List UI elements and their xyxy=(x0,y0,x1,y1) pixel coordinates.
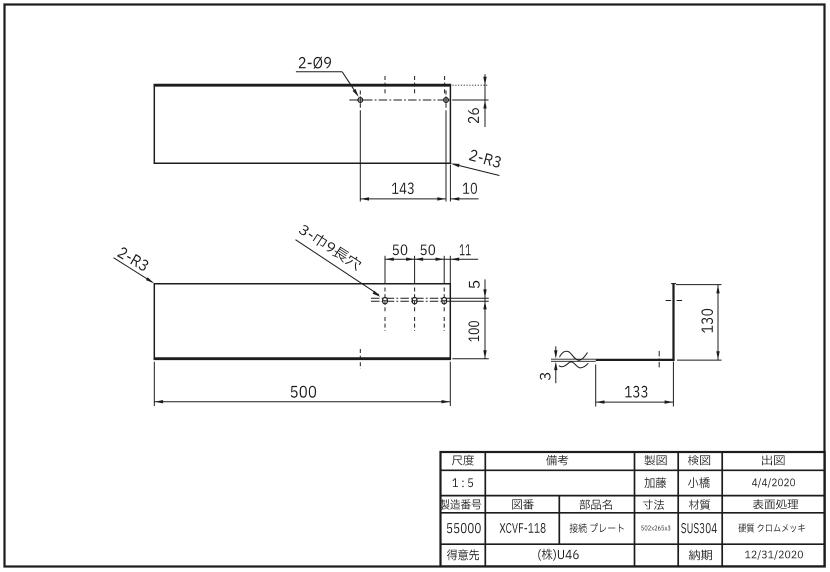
slot 5-dim ext line lower (dash-dot through slots, y=301.2) xyxy=(371,300,489,302)
top view bend edge (thick top line) xyxy=(154,84,452,87)
title cell value: hard chrome plating xyxy=(739,524,805,533)
title cell value: drawing number XCVF-118 xyxy=(500,523,546,533)
title cell header: customer xyxy=(447,549,479,560)
title block horizontal rule row2/row3 xyxy=(441,495,825,497)
title cell value: serial 55000 xyxy=(447,523,481,533)
dimension 26 extension line from hole centerline xyxy=(455,99,489,101)
dimension text 50 (first) xyxy=(393,244,408,255)
title cell header: delivery date xyxy=(689,550,712,561)
hole H1 vertical centerline / extension line xyxy=(359,91,361,202)
title cell header: drawing number xyxy=(512,499,533,510)
dimension 11 outside arrow and overrun xyxy=(450,258,478,261)
middle view bend edge (thick bottom line) xyxy=(154,357,451,360)
title cell value: scale 1:5 xyxy=(453,478,473,487)
title cell value: checked by Kobashi xyxy=(688,477,710,488)
title block vertical rule col 3 (full) xyxy=(634,452,636,566)
slot S1 (width 9 slotted hole) xyxy=(383,298,388,304)
top view plate outline (thin sides and bottom) xyxy=(154,84,452,164)
dimension text 10 xyxy=(463,183,477,194)
dimension 500 extension lines xyxy=(154,362,450,406)
projection centerline of slot 3 crossing top edge xyxy=(444,76,446,94)
label 3-width-9 slotted holes xyxy=(298,223,363,272)
centerline tick on vertical leg (dash-dot) xyxy=(666,300,683,302)
title cell value: issue date xyxy=(752,478,795,488)
hole H2 vertical centerline / extension line xyxy=(445,91,447,202)
dimension text 100 (rotated) xyxy=(468,321,479,341)
title block outer border xyxy=(441,452,825,566)
title cell value: customer (K.K.) U46 xyxy=(538,549,578,561)
dimension 130 line with arrows xyxy=(716,285,719,361)
dimension 5/100 shared vertical line with arrows xyxy=(483,279,486,358)
title block vertical rule col 2 (rows 3-4 only) xyxy=(558,496,560,545)
title cell header: material xyxy=(689,499,710,509)
title block vertical rule col 1 (full) xyxy=(484,452,486,566)
title cell header: part name xyxy=(580,499,612,509)
slot S3 (width 9 slotted hole) xyxy=(442,298,447,304)
dimension text 26 (rotated) xyxy=(468,108,479,123)
dimension 143 extension overrun: right edge of plate extended down xyxy=(449,165,451,202)
centerline through holes (horizontal dash-dot) xyxy=(349,99,470,101)
dimension text 5 (rotated) xyxy=(469,281,480,288)
dimension 500 line with arrows xyxy=(154,400,450,403)
dimension 143 line with arrows xyxy=(360,197,446,200)
title cell value: dimensions 502x265x3 xyxy=(641,526,670,531)
dimension text 3 (rotated) xyxy=(540,373,551,380)
middle view plate outline (thin sides and top) xyxy=(154,283,451,360)
dimension 133 line with arrows xyxy=(596,400,674,403)
projection centerline of slot 1 crossing top edge xyxy=(384,76,386,94)
projection centerline of slot 2 crossing top edge xyxy=(414,76,416,94)
label 2-R3 (middle view) xyxy=(117,246,150,272)
title block vertical rule col 4 (full) xyxy=(677,452,679,566)
dimension 130 extension lines xyxy=(676,285,722,361)
title cell header: remarks xyxy=(546,455,568,465)
title cell header: serial number xyxy=(440,499,482,509)
leader from 2-R3 to plate corner (top view) xyxy=(451,164,500,176)
leader from 2-O9 label to hole H1 xyxy=(296,72,359,97)
dimension text 11 xyxy=(460,244,471,255)
dimension text 143 xyxy=(392,183,414,195)
title block horizontal rule row3/row4 xyxy=(441,512,825,514)
title cell header: checked by xyxy=(688,455,710,465)
slot S3 vertical centerline (dashed) xyxy=(442,288,446,332)
centerline tick on horizontal leg (dash-dot) xyxy=(658,351,660,368)
L profile vertical leg (thick) xyxy=(672,284,674,360)
slot 5-dim ext line upper (dash-dot through slots, y=298.2) xyxy=(371,297,489,299)
slot S2 vertical centerline (dashed) xyxy=(413,288,417,332)
label 2-R3 (top view) xyxy=(469,149,502,168)
dimension 10 line with outside arrow xyxy=(450,197,478,200)
dimension 26 extension line from top edge (dotted) xyxy=(453,84,489,86)
title block horizontal rule row1/row2 xyxy=(441,469,825,471)
projection centerline of hole H1 crossing bottom edge xyxy=(359,349,361,369)
title cell value: drawn by Kato xyxy=(644,477,666,488)
extension line from slot S2 up to 50-dim xyxy=(414,256,416,283)
extension line from slot S1 up to 50-dim xyxy=(384,256,386,283)
extension line from plate bottom right to 100-dim xyxy=(452,358,489,360)
leader from 2-R3 to plate corner (middle view) xyxy=(114,258,155,284)
dimension 3 line with outside arrows xyxy=(554,346,557,383)
dimension text 133 xyxy=(625,386,647,398)
dimension 50/50 line with arrows xyxy=(385,258,450,261)
title cell value: part name connection plate xyxy=(570,523,624,533)
title block horizontal rule row4/row5 xyxy=(441,543,825,545)
title cell value: material SUS304 xyxy=(681,523,717,533)
break squiggle upper curve xyxy=(560,351,588,360)
title cell header: scale xyxy=(452,455,474,466)
title cell header: dimensions xyxy=(643,499,664,509)
extension line from slot S3 up to 50-dim xyxy=(443,256,445,283)
L profile horizontal leg (thick) xyxy=(596,359,675,361)
hole H1 (left, Ø9) xyxy=(357,96,364,103)
break squiggle lower curve xyxy=(559,362,588,368)
title block vertical rule col 5 (full) xyxy=(721,452,723,566)
extension line from right edge up to 11-dim xyxy=(449,256,451,283)
title cell value: delivery 12/31/2020 xyxy=(745,550,803,560)
plate surface thin lines through break xyxy=(551,359,596,361)
dimension text 130 (rotated) xyxy=(701,309,713,333)
hole H2 (right, Ø9) xyxy=(442,96,449,103)
title cell header: issued xyxy=(762,455,784,465)
dimension 133 extension lines xyxy=(596,362,674,407)
dimension text 500 xyxy=(291,386,316,398)
leader from slot label to slot S1 xyxy=(296,240,381,297)
dimension 26 line with outside arrows xyxy=(483,74,486,127)
dimension text 50 (second) xyxy=(421,244,436,255)
title cell header: drawn by xyxy=(644,455,666,465)
title cell header: surface treatment xyxy=(753,499,798,509)
L profile vertical leg top end tick xyxy=(671,283,676,285)
slot S1 vertical centerline (dashed) xyxy=(383,288,387,332)
label 2-O9 xyxy=(299,57,331,69)
slot S2 (width 9 slotted hole) xyxy=(412,298,417,304)
